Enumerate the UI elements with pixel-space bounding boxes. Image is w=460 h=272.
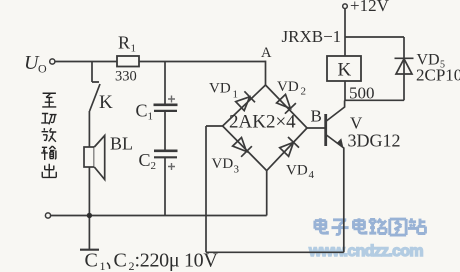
svg-text:500: 500 [349,84,375,103]
wire: ground stub below junction [88,216,90,250]
char 放 [42,128,57,142]
svg-text:C: C [139,150,151,170]
vertical Chinese note 至功放输出 [41,93,56,178]
transistor emitter [326,135,344,149]
wire: right vertex to base [307,127,325,129]
char 输 [41,146,56,160]
svg-text:VD: VD [286,163,308,179]
watermark 电子电路图站 [315,218,426,235]
diode VD3 [233,138,252,157]
svg-text:3: 3 [234,164,240,176]
wire: emitter loop bottom [206,251,344,253]
terminal bottom-left [45,213,50,218]
svg-text:B: B [311,107,322,126]
svg-text:4: 4 [309,169,315,181]
svg-text:2AK2×4: 2AK2×4 [229,112,296,133]
char 出 [42,164,56,178]
svg-text:K: K [99,92,113,113]
svg-text:1: 1 [100,259,106,272]
svg-text:K: K [338,60,352,81]
transistor V base bar [324,114,327,146]
C2 plus sign [168,163,175,170]
speaker BL [84,136,105,180]
svg-text:VD: VD [212,156,234,172]
ground rail [48,215,267,217]
wire: R1 to node A corner [139,61,266,63]
svg-text:C: C [136,101,148,121]
diode VD2 [277,94,296,113]
wire: bridge bottom vertex to ground rail [266,171,268,216]
wire: left vertex stub to emitter loop [206,126,223,252]
resistor R1 [117,56,139,67]
svg-text:O: O [38,62,47,76]
ground bar [80,249,99,251]
svg-text:1: 1 [233,89,239,101]
svg-text:+12V: +12V [350,0,390,15]
junction dot ground rail / speaker [87,213,92,218]
wire: speaker to ground rail junction [88,167,90,216]
svg-text:VD: VD [277,79,299,95]
terminal Uo [50,59,55,64]
wire: +12V node to VD5 top [345,36,404,38]
bridge edge bottom-left [223,126,267,171]
char 至 [42,93,56,107]
bridge edge top-left [223,85,266,126]
wire: VD5 vertical branch [403,37,405,100]
、 between C1 and C2 [107,263,110,269]
svg-text:330: 330 [115,69,137,85]
svg-text:C: C [114,250,127,272]
C1 plus sign [168,96,175,171]
wire: node A corner down to bridge top vertex [265,61,267,85]
emitter arrowhead [337,138,344,147]
diode VD1 [236,91,255,110]
wire: C2 to ground rail [164,158,166,216]
transistor collector [326,101,345,122]
relay coil box K [327,56,361,81]
svg-text:JRXB−1: JRXB−1 [282,27,342,46]
wire: switch branch from top rail [92,62,99,83]
svg-text:C: C [85,250,98,272]
wire: VD5 bottom to collector node [345,99,404,101]
capacitor C2 plates [154,150,178,153]
wire: relay bottom to collector node [344,81,346,101]
switch K blade [90,84,100,111]
wire: emitter vertical [343,148,345,253]
bridge edge top-right [266,85,308,128]
svg-text:3DG12: 3DG12 [348,131,401,151]
svg-text::220μ 10V: :220μ 10V [135,250,219,272]
char 功 [41,114,56,125]
svg-text:1: 1 [131,43,137,55]
wire: switch to speaker [88,111,90,147]
capacitor C1 plates [154,105,178,158]
wire: +12V terminal down to relay top [344,9,346,57]
svg-text:VD: VD [209,81,231,97]
diode VD5 [395,58,414,74]
svg-text:2CP10: 2CP10 [416,66,460,85]
svg-text:1: 1 [148,111,154,123]
diode VD4 [280,137,299,156]
svg-text:BL: BL [110,134,133,154]
wire: C1/C2 branch from top rail [164,62,166,105]
svg-text:2: 2 [151,160,157,172]
terminal +12V [343,4,348,9]
svg-text:R: R [118,33,130,53]
svg-text:A: A [261,45,272,61]
svg-text:2: 2 [301,86,307,98]
bridge edge bottom-right [267,128,307,171]
wire: top rail from Uo terminal to R1 [55,61,117,63]
wire: between C1 and C2 [164,111,166,151]
